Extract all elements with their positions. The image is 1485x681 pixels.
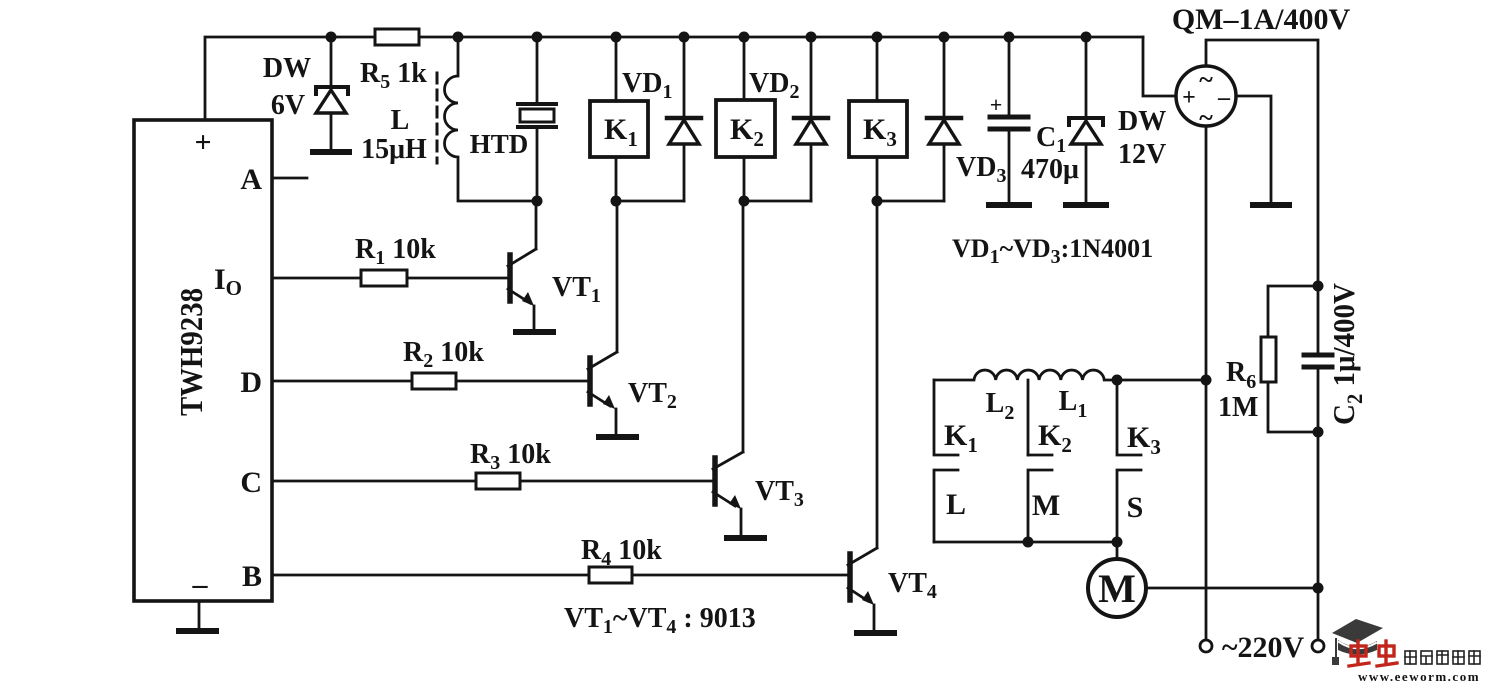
svg-text:–: –: [192, 568, 209, 601]
capacitor C2 1u/400V: [1304, 282, 1367, 588]
wire switch bottom bus: [934, 541, 1117, 544]
ground (QM right): [1253, 202, 1289, 208]
svg-text:S: S: [1127, 491, 1144, 524]
svg-text:~: ~: [1199, 65, 1213, 94]
junction dot (bus / VD1): [679, 32, 690, 43]
junction dot (bus / L): [453, 32, 464, 43]
junction dot (bus / VD3): [939, 32, 950, 43]
junction dot (HTD bottom node): [532, 196, 543, 207]
zener diode DW 12V: [1069, 37, 1166, 201]
junction dot (R6 top): [1313, 281, 1324, 292]
terminal ~220V left: [1200, 640, 1212, 652]
gas sensor U2 QM-1A/400V: [1172, 3, 1351, 132]
ground (DW 12V): [1066, 202, 1106, 208]
diode VD1: [622, 37, 701, 201]
ground (VT1): [516, 329, 553, 335]
transistor VT1: [508, 201, 601, 329]
svg-text:470μ: 470μ: [1021, 154, 1079, 185]
ground (C1): [989, 202, 1029, 208]
switch K3 contact: [1117, 380, 1161, 542]
ground (DW 6V): [313, 149, 349, 155]
junction dot (K2 bottom node): [739, 196, 750, 207]
resistor R6 1M: [1218, 286, 1318, 432]
watermark logo graduation cap: [1332, 619, 1383, 665]
svg-text:M: M: [1098, 566, 1136, 611]
junction dot (bus / HTD): [532, 32, 543, 43]
wire QM right terminal: [1236, 96, 1271, 202]
piezo sounder HTD: [470, 37, 556, 201]
diode VD3: [927, 37, 1006, 201]
watermark text chongchong (red): [1349, 641, 1397, 666]
motor M: [1088, 542, 1318, 617]
svg-text:DW: DW: [1118, 106, 1166, 137]
svg-text:–: –: [1217, 85, 1231, 111]
svg-text:D: D: [240, 366, 262, 399]
junction dot (coil wire / mains line): [1201, 375, 1212, 386]
junction dot (bus / C1): [1004, 32, 1015, 43]
resistor R5: [360, 29, 427, 93]
svg-text:+: +: [990, 92, 1003, 117]
svg-text:QM–1A/400V: QM–1A/400V: [1172, 3, 1351, 36]
svg-text:www.eeworm.com: www.eeworm.com: [1358, 669, 1480, 681]
junction dot (coil right end): [1112, 375, 1123, 386]
svg-text:15μH: 15μH: [361, 134, 427, 165]
resistor R3 10k: [272, 439, 712, 489]
svg-text:L: L: [946, 488, 966, 521]
capacitor C1 470u: [990, 37, 1079, 201]
svg-text:R2 10k: R2 10k: [403, 337, 484, 372]
svg-text:A: A: [240, 163, 262, 196]
resistor R2 10k: [272, 337, 587, 389]
inductor L 15uH: [361, 37, 537, 201]
svg-text:DW: DW: [263, 53, 311, 84]
relay coil K1: [590, 37, 684, 201]
transistor VT3: [713, 203, 804, 535]
junction dot (K3 bottom node): [872, 196, 883, 207]
wire QM top terminal: [1206, 40, 1318, 286]
junction dot (K1 bottom node): [611, 196, 622, 207]
switch K1 contact: [934, 380, 978, 542]
junction dot (K3 / bottom bus): [1112, 537, 1123, 548]
resistor R4 10k: [272, 535, 847, 583]
svg-text:R3 10k: R3 10k: [470, 439, 551, 474]
junction dot (bus / DW6V): [326, 32, 337, 43]
svg-text:R5 1k: R5 1k: [360, 58, 427, 93]
junction dot (bus / K2): [739, 32, 750, 43]
junction dot (bus / K3): [872, 32, 883, 43]
svg-text:VT1~VT4 : 9013: VT1~VT4 : 9013: [564, 603, 756, 638]
transistor VT2: [588, 203, 677, 434]
inductor L2 / L1 tapped coil: [934, 370, 1206, 455]
svg-text:+: +: [194, 126, 211, 159]
ground (VT3): [727, 535, 764, 541]
junction dot (motor wire / C2 line): [1313, 583, 1324, 594]
junction dot (K2 / bottom bus): [1023, 537, 1034, 548]
junction dot (bus / VD2): [806, 32, 817, 43]
junction dot (bus / DW12V): [1081, 32, 1092, 43]
svg-text:B: B: [242, 560, 262, 593]
junction dot (bus / K1): [611, 32, 622, 43]
ground (VT2): [599, 434, 636, 440]
relay coil K2: [716, 37, 811, 201]
IC U1 TWH9238: [134, 120, 272, 601]
resistor R1 10k: [272, 234, 507, 286]
diode VD2: [749, 37, 828, 201]
pin A stub wire: [272, 177, 307, 180]
svg-text:12V: 12V: [1118, 139, 1166, 170]
svg-text:R4 10k: R4 10k: [581, 535, 662, 570]
svg-text:TWH9238: TWH9238: [173, 288, 209, 416]
terminal ~220V right: [1312, 588, 1324, 652]
wire QM left terminal to +V bus: [1143, 37, 1176, 96]
ground (IC): [179, 601, 216, 631]
ground (VT4): [857, 630, 894, 636]
watermark text dianzi xiazaizhan (black glyph blocks): [1405, 651, 1480, 664]
svg-text:M: M: [1032, 489, 1060, 522]
svg-text:C: C: [240, 466, 262, 499]
zener diode DW 6V: [263, 37, 348, 149]
transistor VT4: [848, 203, 937, 630]
svg-text:6V: 6V: [271, 90, 305, 121]
svg-text:~220V: ~220V: [1222, 631, 1305, 664]
switch K2 contact: [1028, 419, 1072, 542]
svg-text:HTD: HTD: [470, 129, 529, 159]
svg-text:1M: 1M: [1218, 392, 1258, 423]
svg-text:R1 10k: R1 10k: [355, 234, 436, 269]
svg-text:L: L: [391, 105, 410, 136]
relay coil K3: [849, 37, 944, 201]
svg-text:+: +: [1182, 85, 1196, 111]
wire QM bottom terminal down to mains: [1205, 126, 1208, 640]
junction dot (R6 bottom): [1313, 427, 1324, 438]
wire +V top bus: [205, 37, 1143, 120]
